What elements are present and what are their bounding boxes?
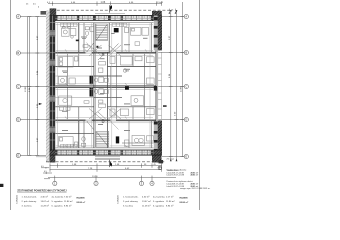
top-left corner wall cap <box>50 8 57 20</box>
furniture mid-right <box>121 56 155 84</box>
interior vertical wall x133 lower <box>132 107 134 120</box>
right exterior wall upper inner leaf <box>154 15 158 50</box>
svg-text:Lokal B 28.17+13.88: Lokal B 28.17+13.88 <box>167 175 184 177</box>
interior vertical wall x151.7 bottom <box>151 121 153 148</box>
right dim rotated text <box>169 35 183 116</box>
svg-text:11.84 m²: 11.84 m² <box>166 200 175 203</box>
interior vertical wall x78.8 midbottom <box>78 107 80 120</box>
svg-text:uwaga: wym. 28.17+13.88 28.81: uwaga: wym. 28.17+13.88 28.81 m² <box>180 187 210 190</box>
svg-text:13.67 m²: 13.67 m² <box>142 200 151 203</box>
left grid bubbles A-E <box>16 15 49 158</box>
door swing top-right <box>110 44 119 53</box>
interior vertical wall x67.5 <box>67 54 69 86</box>
staircase upper <box>96 24 108 41</box>
left table rows <box>22 196 73 208</box>
interior vertical wall x78.8 bottom <box>78 121 80 148</box>
svg-text:Powierzchnia użytkowa całości:: Powierzchnia użytkowa całości: <box>167 180 194 183</box>
svg-text:5. sypialnia: 5. sypialnia <box>52 201 64 203</box>
furniture bed mid-left <box>59 57 78 67</box>
left table rotated label LOKAL A <box>16 195 19 204</box>
svg-text:4a. łazienka: 4a. łazienka <box>52 197 64 199</box>
interior partial wall y106.8 right <box>108 106 157 108</box>
interior partial wall y66.5 right <box>108 66 157 68</box>
bottom wall inner face line <box>55 147 153 149</box>
top eaves dashed line <box>52 9 172 11</box>
right grid bubbles A-E <box>158 15 188 159</box>
bottom grid bubble line <box>48 177 176 179</box>
svg-text:13.88: 13.88 <box>181 86 183 92</box>
svg-text:3. kuchnia: 3. kuchnia <box>22 206 33 208</box>
right wall middle window sills <box>158 52 162 119</box>
bath wall x84 bottom <box>83 121 85 148</box>
right table rotated label LOKAL B <box>117 195 120 204</box>
door swing hall low <box>98 112 106 119</box>
door swing bottom-center2 <box>110 121 119 130</box>
corridor wall x109.5 top <box>108 23 110 53</box>
left dim rotated text <box>25 35 39 142</box>
svg-text:28.81 m²: 28.81 m² <box>191 174 199 177</box>
closet row top-right <box>113 23 127 26</box>
svg-text:LOKAL A: LOKAL A <box>16 195 19 204</box>
svg-text:1.5x25: 1.5x25 <box>157 2 164 4</box>
left exterior wall <box>50 15 56 162</box>
left dimension stack <box>27 17 39 156</box>
shaft black lower-mid <box>90 88 93 97</box>
interior partial wall y76 center <box>94 75 122 77</box>
svg-text:4.30 m²: 4.30 m² <box>41 196 49 199</box>
svg-text:6. sypialnia: 6. sypialnia <box>153 206 165 208</box>
furniture mid-left lower <box>59 76 76 84</box>
furniture bed bottom-left <box>59 137 78 147</box>
right dim arrows top <box>170 10 178 13</box>
fold mark left edge <box>0 184 3 187</box>
bath wall x84 <box>83 23 85 53</box>
top band internal line <box>55 17 154 19</box>
porch roof line top <box>95 13 125 15</box>
shaft black upper-mid <box>90 76 93 85</box>
svg-text:2. pok. dzienny: 2. pok. dzienny <box>123 201 139 203</box>
top exterior wall band <box>55 15 154 20</box>
interior tick crosses <box>65 49 147 147</box>
partial line y76 left <box>55 75 94 77</box>
furniture kitchen center <box>99 56 116 72</box>
door X right above lower stairs <box>109 109 122 120</box>
svg-text:6. sypialnia: 6. sypialnia <box>52 206 64 208</box>
corridor wall x107.5 <box>107 52 109 148</box>
shaft black top <box>114 28 119 32</box>
bottom-right drain marker <box>158 166 162 170</box>
svg-text:LOKAL B: LOKAL B <box>117 195 120 204</box>
bottom-right corner wall cap <box>152 150 162 163</box>
furniture table lower-left <box>59 96 72 110</box>
top-right corner wall cap <box>152 11 162 21</box>
svg-text:D: D <box>185 118 187 122</box>
svg-text:13.70: 13.70 <box>92 176 98 178</box>
svg-text:C: C <box>185 85 187 89</box>
bottom-left small dims <box>41 168 52 179</box>
svg-text:4a. łazienka: 4a. łazienka <box>153 197 165 199</box>
interior partial wall y133.3 <box>55 132 94 134</box>
top-left terrace gray block <box>41 11 50 15</box>
notes paragraph 2 <box>167 180 199 188</box>
top entrance axis arrow <box>110 5 112 10</box>
right table rows <box>123 196 175 208</box>
corridor wall x94.5 pair <box>93 23 95 148</box>
door swing hall <box>98 52 106 60</box>
left exterior insulation hatch <box>46 11 50 163</box>
furniture desk group top-left <box>62 27 76 39</box>
svg-text:13.67 m²: 13.67 m² <box>41 200 50 203</box>
right dim arrows bottom <box>170 159 178 162</box>
door X left above lower stairs <box>89 109 102 120</box>
interior vertical wall x129 bottom <box>128 121 130 148</box>
svg-text:1. hol+komunik.: 1. hol+komunik. <box>123 197 139 199</box>
shaft black bottom <box>116 136 119 143</box>
shaft black row C right <box>125 86 129 90</box>
top-left corner tiny dim ticks <box>48 3 53 5</box>
svg-text:7.50 m²: 7.50 m² <box>64 196 72 199</box>
sheet left border <box>10 0 12 210</box>
furniture wc top-left <box>85 27 93 36</box>
rain pipe blob bottom-right <box>159 160 164 163</box>
interior vertical wall x78.5 top <box>78 23 80 53</box>
svg-text:8.94 m²: 8.94 m² <box>64 205 72 208</box>
svg-text:5. sypialnia: 5. sypialnia <box>153 201 165 203</box>
right exterior wall lower inner leaf <box>154 120 158 155</box>
notes paragraph 1 <box>167 168 199 176</box>
interior vertical wall x122 top <box>121 23 123 53</box>
svg-text:82.80 m²: 82.80 m² <box>180 201 189 204</box>
right exterior wall lower outer leaf <box>158 120 162 155</box>
svg-text:E: E <box>185 155 187 159</box>
sheet right border <box>199 0 201 210</box>
door X left below stairs <box>89 45 102 56</box>
right exterior wall upper outer leaf <box>158 15 162 50</box>
interior vertical wall x116.5 <box>116 54 118 120</box>
closet row top-left <box>61 23 78 26</box>
interior vertical wall x144.5 <box>144 54 146 120</box>
furniture small table top-right <box>135 42 140 46</box>
interior wall row B <box>55 51 156 53</box>
svg-text:11.84 m²: 11.84 m² <box>64 200 73 203</box>
interior vertical wall x133 <box>132 54 134 67</box>
svg-text:RAZEM:: RAZEM: <box>180 197 189 200</box>
svg-text:ZESTAWIENIE POWIERZCHNI UŻYTKO: ZESTAWIENIE POWIERZCHNI UŻYTKOWEJ <box>17 190 67 193</box>
interior partial wall y143 right <box>122 142 154 144</box>
svg-text:d: d <box>38 6 39 8</box>
top wall inner face line <box>55 22 153 24</box>
svg-text:A: A <box>185 15 187 19</box>
interior dim tick rows <box>56 23 153 147</box>
svg-text:C: C <box>17 85 19 89</box>
interior partial wall y97.3 center <box>94 96 122 98</box>
staircase lower <box>96 131 109 147</box>
svg-text:Powierzchnia całkowita:: Powierzchnia całkowita: <box>167 168 188 171</box>
svg-text:2% spad.: 2% spad. <box>167 159 175 161</box>
door X right below stairs <box>109 45 122 56</box>
svg-text:13.88: 13.88 <box>25 86 27 92</box>
bottom dimension line 2 <box>50 167 162 171</box>
bottom exterior wall band <box>55 150 154 155</box>
dark block right thin wall row C <box>154 86 157 91</box>
door swing top-center <box>87 43 95 53</box>
bath fixtures below row C <box>95 89 109 95</box>
interior vertical wall x129 top <box>128 23 130 53</box>
svg-text:8.94 m²: 8.94 m² <box>166 205 174 208</box>
bottom eaves dashed line <box>46 161 166 163</box>
svg-text:2.17 m²: 2.17 m² <box>166 196 174 199</box>
svg-text:A: A <box>17 15 19 19</box>
furniture bath bottom-left <box>82 137 86 147</box>
right wall middle thin section <box>155 50 157 120</box>
shaft small top-left <box>76 40 79 42</box>
interior wall row D <box>55 118 156 120</box>
bottom grid bubbles 1-4 <box>53 181 154 185</box>
top-right level arrows <box>169 11 177 13</box>
right wall detail blob <box>163 105 167 107</box>
svg-text:B: B <box>17 51 19 55</box>
shaft small top-corridor <box>96 46 98 48</box>
top dimension line <box>52 1 162 5</box>
svg-text:E: E <box>17 153 19 157</box>
bottom-left corner wall cap <box>50 150 56 163</box>
svg-text:1. hol+komunik.: 1. hol+komunik. <box>22 197 38 199</box>
interior wall row C double <box>55 85 156 87</box>
interior vertical wall x151.7 top <box>151 23 153 53</box>
closet row bottom-left <box>61 144 78 147</box>
svg-text:B: B <box>185 51 187 55</box>
bottom entrance steps <box>95 157 120 160</box>
door swing bottom-center <box>87 121 95 130</box>
interior partial wall y106.8 left <box>55 106 94 108</box>
bottom band internal line <box>55 152 154 154</box>
door swing top-center2 <box>87 43 95 53</box>
furniture lower-right <box>121 96 155 116</box>
svg-text:11.28 m²: 11.28 m² <box>142 205 151 208</box>
svg-text:1.06: 1.06 <box>101 1 106 4</box>
bottom-left terrace line <box>36 156 46 158</box>
bottom entrance axis arrow <box>110 161 112 166</box>
window marker arrow left wall <box>39 103 42 105</box>
bottom dimension line 1 <box>50 163 162 167</box>
bath fixtures above row C <box>95 77 109 83</box>
svg-text:2. pok. dzienny: 2. pok. dzienny <box>22 201 38 203</box>
left wall window gaps <box>50 30 56 133</box>
svg-text:3. kuchnia: 3. kuchnia <box>123 206 134 208</box>
svg-text:11.28 m²: 11.28 m² <box>41 205 50 208</box>
corridor second wall line <box>109 67 111 107</box>
furniture table bottom-right <box>125 135 154 146</box>
furniture kitchen center low <box>99 100 116 116</box>
svg-text:82.80 m²: 82.80 m² <box>77 201 86 204</box>
interior vertical wall x67.5 lower <box>67 87 69 119</box>
room label specks <box>62 33 148 131</box>
svg-text:RAZEM:: RAZEM: <box>77 197 86 200</box>
svg-text:D: D <box>17 118 19 122</box>
interior partial wall y66.5 left <box>55 66 94 68</box>
partial line y97.3 left <box>55 96 94 98</box>
interior vertical wall x78.8 midtop <box>78 54 80 67</box>
bottom bubble stems <box>55 176 152 182</box>
svg-text:4.30 m²: 4.30 m² <box>142 196 150 199</box>
right dimension stack <box>169 2 184 160</box>
furniture bed top-right <box>125 27 149 35</box>
